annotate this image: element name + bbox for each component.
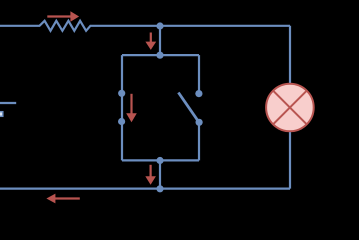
current arrow D (below box, down-pointing)	[145, 165, 156, 185]
wire bottom	[0, 188, 290, 190]
current arrow A (top, right-pointing)	[47, 11, 79, 21]
wire right branch upper segment to switch contact	[198, 55, 200, 94]
node left branch upper	[118, 90, 125, 97]
current arrow B (above box, down-pointing)	[145, 33, 156, 50]
switch S1 blade (open)	[178, 93, 199, 123]
wire stub from top wire to parallel box	[159, 26, 161, 55]
wire parallel box bottom edge	[122, 159, 199, 161]
battery B1 short plate (clipped at left edge)	[0, 112, 3, 117]
node switch pivot	[196, 119, 203, 126]
current arrow C (left branch, down-pointing)	[126, 94, 137, 123]
node left branch lower	[118, 118, 125, 125]
wire top (with resistor R1 zigzag)	[0, 21, 290, 31]
node on box top edge	[156, 52, 163, 59]
node on box bottom edge	[156, 157, 163, 164]
node on bottom wire	[156, 185, 163, 192]
wire parallel box top edge	[122, 54, 199, 56]
current arrow E (bottom, left-pointing)	[46, 194, 79, 204]
node on top wire	[156, 22, 163, 29]
node switch fixed contact	[195, 90, 202, 97]
battery B1 long plate (clipped at left edge)	[0, 102, 16, 104]
wire right side	[289, 26, 291, 189]
wire right branch lower segment from switch pivot	[198, 122, 200, 160]
lamp L1	[266, 84, 314, 132]
wire stub from parallel box to bottom wire	[159, 160, 161, 188]
wire parallel box left branch	[121, 55, 123, 160]
